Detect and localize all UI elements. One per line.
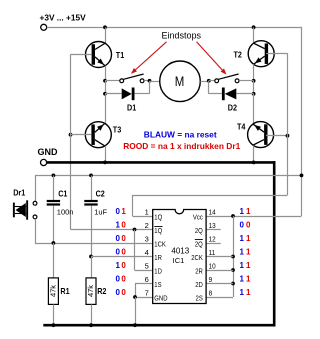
svg-text:100n: 100n: [57, 207, 74, 216]
svg-text:0: 0: [121, 288, 126, 297]
state digits pin 9: [240, 275, 252, 284]
node left switch top: [103, 79, 107, 83]
svg-text:0: 0: [121, 234, 126, 243]
svg-text:13: 13: [209, 223, 216, 231]
svg-text:2S: 2S: [196, 295, 204, 303]
IC pin label 1Q: [154, 214, 162, 222]
node right diode tap: [252, 92, 256, 96]
svg-text:Eindstops: Eindstops: [162, 31, 202, 41]
svg-text:9: 9: [209, 277, 213, 285]
svg-text:47k: 47k: [49, 285, 58, 297]
svg-text:14: 14: [209, 209, 216, 217]
svg-text:2D: 2D: [195, 282, 203, 290]
node right switch end: [252, 79, 256, 83]
svg-text:Dr1: Dr1: [13, 188, 26, 198]
svg-text:10: 10: [209, 263, 216, 271]
wire down to T4: [253, 94, 255, 124]
node C1/R1 junction: [52, 241, 56, 245]
node C2/R2 junction: [89, 255, 93, 259]
wire T3 to GND: [105, 146, 107, 163]
svg-text:7: 7: [145, 289, 149, 298]
wire T1 emitter down: [105, 66, 107, 81]
arrow to left endstop: [131, 42, 167, 74]
label D1: [127, 103, 137, 113]
svg-text:1: 1: [246, 288, 251, 297]
IC pin label GND: [154, 295, 167, 303]
wire Dr1 bottom: [35, 219, 37, 243]
resistor R2: [86, 278, 96, 305]
svg-text:T3: T3: [113, 125, 122, 135]
wire switch to node: [144, 80, 150, 82]
node +V T1 branch: [103, 25, 107, 29]
svg-text:C1: C1: [58, 189, 68, 199]
node T3 base junction: [69, 133, 73, 137]
pin number 3: [145, 235, 149, 244]
IC pin label 2D: [195, 282, 203, 290]
wire T2 collector to rail: [253, 27, 255, 43]
svg-text:2CK: 2CK: [191, 255, 203, 263]
svg-text:8: 8: [209, 290, 213, 298]
svg-text:4013: 4013: [171, 246, 189, 255]
IC pin label 1S: [154, 282, 162, 290]
label C2: [96, 189, 106, 199]
wire to D1: [105, 81, 107, 94]
legend BLAUW: [144, 130, 217, 140]
svg-text:6: 6: [145, 275, 149, 284]
pin number 11: [209, 250, 216, 258]
svg-text:1: 1: [246, 234, 251, 243]
svg-text:1Q: 1Q: [154, 214, 162, 222]
wire 1Q- to 1D: [135, 230, 153, 271]
motor M: [160, 61, 201, 102]
wire T2/T4 base column: [287, 53, 289, 195]
wire to D2: [253, 81, 255, 94]
svg-text:1: 1: [240, 275, 245, 284]
wire C1 bottom lead: [53, 206, 55, 243]
IC pin label 2Q: [195, 228, 203, 236]
svg-text:0: 0: [116, 234, 121, 243]
state digits pin 6: [116, 275, 127, 284]
state digits pin 7: [116, 288, 127, 297]
svg-text:3: 3: [145, 235, 149, 244]
pin number 12: [209, 236, 216, 244]
svg-text:0: 0: [116, 275, 121, 284]
wire switch left feed: [105, 80, 120, 82]
wire pin 11: [206, 256, 233, 258]
svg-text:0: 0: [116, 288, 121, 297]
diode D2: [222, 88, 236, 101]
svg-text:Vcc: Vcc: [193, 214, 204, 222]
node pin2/1D junction: [133, 228, 137, 232]
IC U1 4013 body: [153, 210, 206, 304]
wire motor node down to D2: [209, 81, 222, 94]
wire node to right switch: [209, 80, 215, 82]
node motor right: [207, 79, 211, 83]
node C2 top: [89, 174, 93, 178]
wire T4 base: [266, 135, 288, 137]
svg-text:1: 1: [246, 207, 251, 216]
wire GND bottom rail: [43, 324, 275, 327]
svg-text:0: 0: [240, 221, 245, 230]
power terminal +3V...+15V: [41, 24, 47, 30]
svg-text:D2: D2: [228, 103, 238, 113]
svg-text:1Q: 1Q: [154, 228, 162, 236]
svg-text:R1: R1: [60, 286, 70, 296]
wire pin 9: [206, 283, 233, 285]
transistor T4: [248, 122, 274, 148]
wire D1 cathode up: [135, 81, 150, 94]
svg-text:1: 1: [240, 261, 245, 270]
svg-text:1: 1: [116, 261, 121, 270]
svg-text:IC1: IC1: [173, 256, 185, 265]
wire +V top rail: [47, 27, 302, 216]
endstop switch S1: [120, 74, 144, 83]
svg-text:2Q: 2Q: [195, 228, 203, 236]
label T3: [113, 125, 122, 135]
wire Vcc tie column: [233, 216, 235, 297]
svg-text:1CK: 1CK: [154, 241, 166, 249]
svg-text:1: 1: [240, 248, 245, 257]
label Dr1: [13, 188, 26, 198]
wire R1 bottom lead: [53, 304, 55, 325]
pin number 13: [209, 223, 216, 231]
node C1 top: [52, 174, 56, 178]
svg-text:C2: C2: [96, 189, 106, 199]
value 47k R2: [86, 285, 95, 297]
node T4 base junction: [286, 134, 290, 138]
wire R2 bottom lead: [91, 304, 93, 325]
svg-text:2: 2: [145, 221, 149, 230]
pin number 8: [209, 290, 213, 298]
IC pin label 1R: [154, 255, 162, 263]
svg-text:GND: GND: [38, 147, 59, 157]
svg-text:+3V ... +15V: +3V ... +15V: [40, 13, 87, 23]
node pin 11 tie: [231, 255, 235, 259]
IC pin label 1Q: [154, 227, 162, 236]
pin number 9: [209, 277, 213, 285]
svg-text:1R: 1R: [154, 255, 162, 263]
node pin 9 tie: [231, 282, 235, 286]
pin number 6: [145, 275, 149, 284]
op: pin 1 wire to bases net: [133, 195, 288, 217]
svg-text:T4: T4: [237, 122, 246, 132]
node R1 GND: [52, 323, 56, 327]
arrow to right endstop: [197, 42, 227, 75]
IC pin label 2R: [195, 268, 203, 276]
wire down to T3: [105, 94, 107, 124]
node T3 emitter GND: [103, 161, 107, 165]
capacitor C2: [84, 200, 97, 206]
label GND: [38, 147, 59, 157]
value 1uF: [94, 207, 107, 216]
wire D2 anode: [236, 93, 253, 95]
capacitor C1: [47, 200, 60, 206]
svg-text:1: 1: [240, 207, 245, 216]
svg-text:ROOD = na 1 x indrukken Dr1: ROOD = na 1 x indrukken Dr1: [123, 141, 240, 151]
label T2: [234, 50, 243, 60]
pin number 2: [145, 221, 149, 230]
wire T1 collector to rail: [105, 27, 107, 43]
state digits pin 11: [240, 248, 252, 257]
svg-text:0: 0: [121, 261, 126, 270]
node pin7: [133, 295, 137, 299]
svg-text:2Q: 2Q: [195, 241, 203, 249]
label C1: [58, 189, 68, 199]
wire pin 10: [206, 270, 233, 272]
wire T1/T3 base column: [70, 54, 72, 229]
wire Dr1 top: [35, 175, 37, 201]
wire node to motor: [150, 81, 160, 83]
pin number 1: [145, 208, 149, 217]
state digits pin 5: [116, 261, 127, 270]
wire pin 8: [206, 297, 233, 299]
svg-text:1: 1: [121, 207, 126, 216]
IC pin label 2CK: [191, 255, 203, 263]
svg-text:R2: R2: [97, 286, 107, 296]
wire C1 top lead: [53, 175, 55, 200]
svg-text:2R: 2R: [195, 268, 203, 276]
label 4013: [171, 246, 189, 255]
node left diode tap: [103, 92, 107, 96]
svg-text:0: 0: [116, 248, 121, 257]
wire to pin 4: [91, 256, 153, 258]
svg-text:1: 1: [240, 234, 245, 243]
wire motor to right node: [200, 81, 209, 83]
wire GND right vertical: [273, 161, 276, 326]
IC pin label 2S: [196, 295, 204, 303]
svg-text:0: 0: [116, 207, 121, 216]
state digits pin 14: [240, 207, 252, 216]
svg-text:T2: T2: [234, 50, 243, 60]
svg-text:1: 1: [116, 221, 121, 230]
value 100n: [57, 207, 74, 216]
wire pin 7 GND: [135, 297, 153, 299]
state digits pin 2: [116, 221, 127, 230]
pin number 10: [209, 263, 216, 271]
svg-text:1: 1: [246, 248, 251, 257]
pushbutton Dr1: [13, 200, 37, 219]
value 47k R1: [49, 285, 58, 297]
transistor T1: [86, 42, 112, 68]
svg-text:T1: T1: [116, 50, 125, 60]
IC pin label 2Q: [195, 240, 203, 249]
svg-text:0: 0: [121, 275, 126, 284]
wire Vcc distribution: [35, 175, 302, 177]
node Vcc column: [231, 214, 235, 218]
svg-text:11: 11: [209, 250, 216, 258]
svg-text:GND: GND: [154, 295, 167, 303]
svg-text:1uF: 1uF: [94, 207, 107, 216]
IC pin label 1D: [154, 268, 162, 276]
endstop switch S2: [215, 74, 239, 83]
label R2: [97, 286, 107, 296]
svg-text:1: 1: [246, 261, 251, 270]
wire C2 top lead: [91, 175, 93, 200]
svg-text:0: 0: [121, 221, 126, 230]
wire reset net to pin 3: [35, 243, 153, 245]
wire switch to T2 column: [239, 80, 253, 82]
wire pin 12 stub: [206, 243, 221, 245]
wire pin 6 to pin 7: [135, 284, 153, 298]
wire pin 14 Vcc: [206, 216, 301, 218]
svg-text:0: 0: [246, 221, 251, 230]
state digits pin 3: [116, 234, 127, 243]
state digits pin 12: [240, 234, 252, 243]
state digits pin 10: [240, 261, 252, 270]
pin number 5: [145, 262, 149, 271]
ground terminal GND: [41, 159, 47, 165]
label R1: [60, 286, 70, 296]
svg-text:5: 5: [145, 262, 149, 271]
label +3V ... +15V: [40, 13, 87, 23]
wire GND rail: [47, 161, 276, 164]
transistor T3: [85, 122, 111, 148]
wire pin 13 stub: [206, 229, 221, 231]
node pin7 GND rail: [133, 323, 137, 327]
state digits pin 1: [116, 207, 127, 216]
svg-text:M: M: [175, 74, 185, 89]
label Eindstops: [162, 31, 202, 41]
state digits pin 4: [116, 248, 127, 257]
pin number 7: [145, 289, 149, 298]
svg-text:0: 0: [121, 248, 126, 257]
wire T2 base: [266, 53, 287, 55]
label D2: [228, 103, 238, 113]
node T4 emitter GND: [252, 161, 256, 165]
node Vcc right rail: [300, 174, 304, 178]
node R2 GND: [89, 323, 93, 327]
svg-text:1: 1: [145, 208, 149, 217]
IC pin label 1CK: [154, 241, 166, 249]
svg-text:47k: 47k: [86, 285, 95, 297]
svg-text:D1: D1: [127, 103, 137, 113]
wire T3 base: [71, 134, 92, 136]
state digits pin 13: [240, 221, 252, 230]
label T4: [237, 122, 246, 132]
legend ROOD: [123, 141, 240, 151]
resistor R1: [48, 278, 58, 305]
wire T4 to GND: [253, 146, 255, 163]
wire T1 base: [71, 54, 92, 56]
transistor T2: [248, 41, 274, 67]
svg-text:4: 4: [145, 248, 149, 257]
IC pin label Vcc: [193, 214, 204, 222]
svg-text:1S: 1S: [154, 282, 162, 290]
pin number 14: [209, 209, 216, 217]
label T1: [116, 50, 125, 60]
wire R2 top lead: [91, 257, 93, 278]
node motor left: [148, 79, 152, 83]
svg-text:1: 1: [240, 288, 245, 297]
wire R1 top lead: [53, 243, 55, 278]
wire D1 anode: [105, 93, 122, 95]
label IC1: [173, 256, 185, 265]
svg-text:BLAUW = na reset: BLAUW = na reset: [144, 130, 217, 140]
wire T2 emitter down: [253, 64, 255, 81]
svg-text:1D: 1D: [154, 268, 162, 276]
pin number 4: [145, 248, 149, 257]
svg-text:12: 12: [209, 236, 216, 244]
state digits pin 8: [240, 288, 252, 297]
wire pin7 to GND rail: [135, 297, 137, 325]
node pin 10 tie: [231, 268, 235, 272]
node +V T2 branch: [252, 25, 256, 29]
svg-text:1: 1: [246, 275, 251, 284]
wire pin 2 to T1/T3 bases: [71, 229, 153, 231]
diode D1: [122, 88, 135, 101]
wire C2 bottom lead: [91, 206, 93, 257]
